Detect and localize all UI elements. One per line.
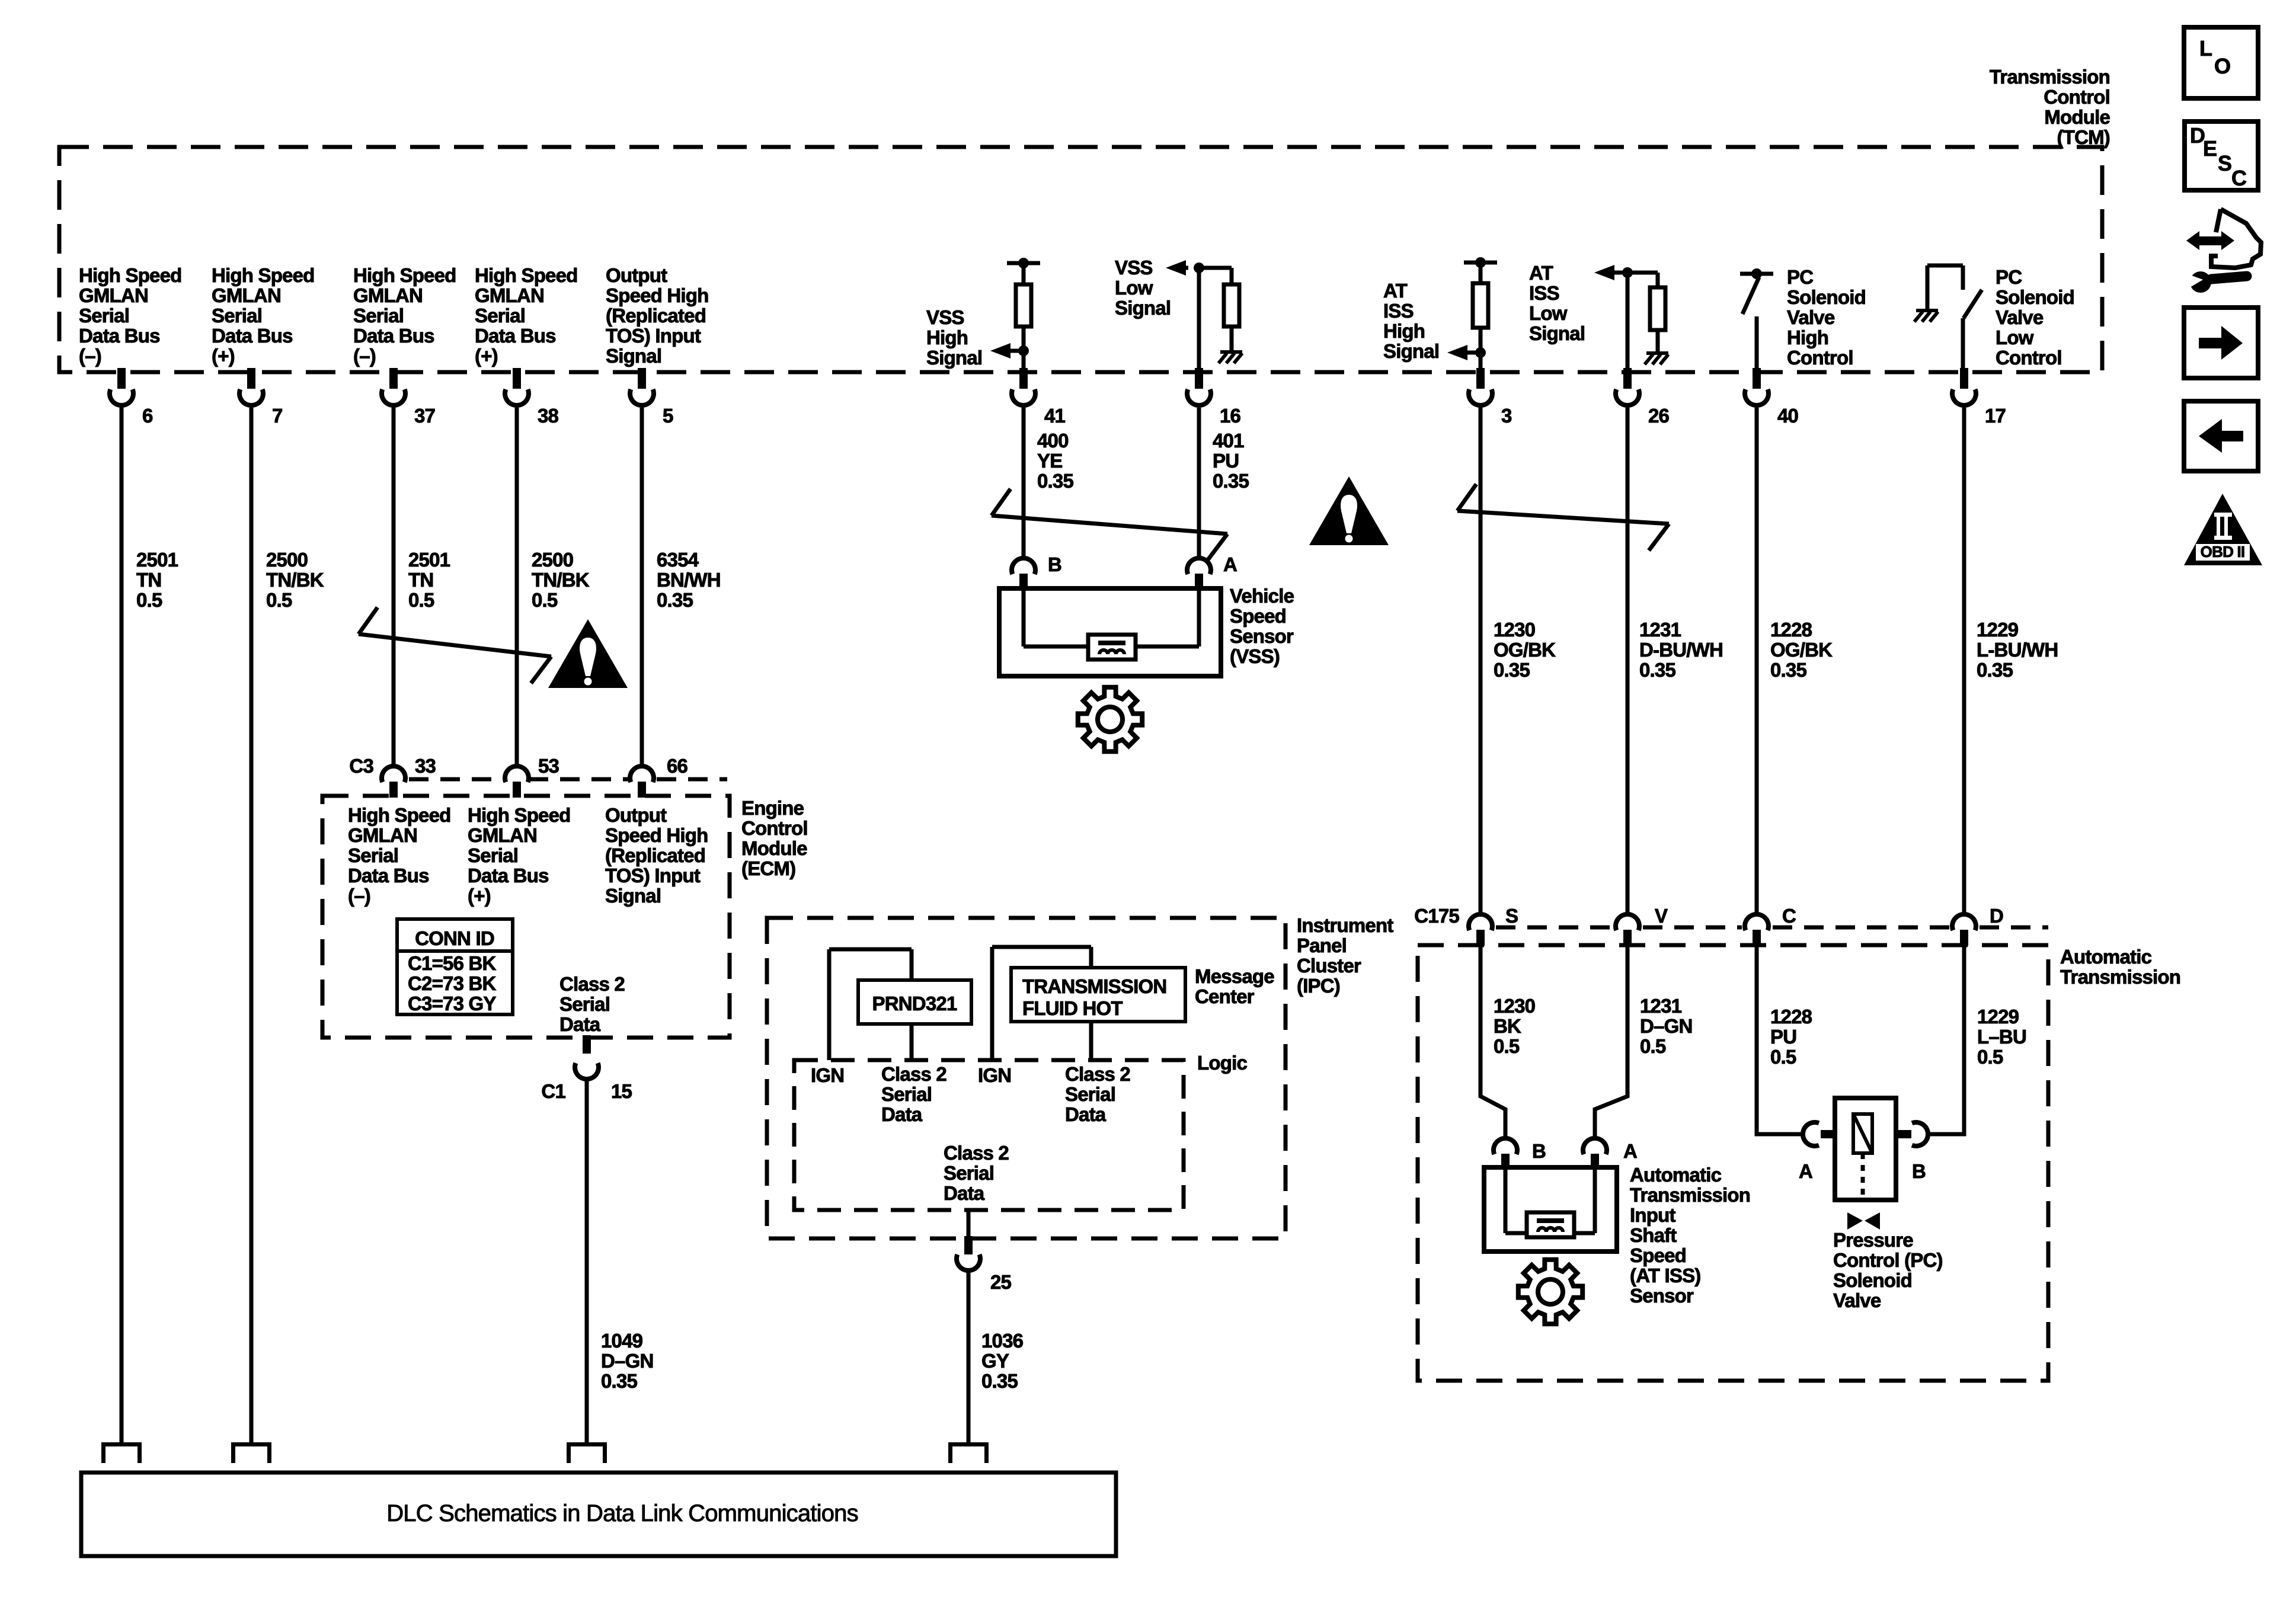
svg-text:PU: PU bbox=[1770, 1026, 1796, 1048]
svg-text:YE: YE bbox=[1037, 450, 1062, 472]
terminal 1049 at DLC bbox=[567, 1442, 607, 1463]
svg-text:Control: Control bbox=[741, 817, 808, 839]
terminal pin6 at DLC bbox=[101, 1442, 142, 1463]
connector pin 33 of ECM bbox=[382, 755, 436, 798]
svg-text:GMLAN: GMLAN bbox=[348, 824, 417, 846]
svg-text:0.5: 0.5 bbox=[408, 589, 434, 611]
svg-text:C: C bbox=[2231, 166, 2247, 190]
svg-text:E: E bbox=[2203, 136, 2217, 161]
connector pin 53 of ECM bbox=[505, 755, 559, 798]
svg-text:TN/BK: TN/BK bbox=[532, 569, 590, 591]
svg-text:(+): (+) bbox=[212, 345, 235, 367]
svg-text:D–GN: D–GN bbox=[601, 1350, 654, 1372]
svg-text:Output: Output bbox=[605, 804, 667, 826]
svg-text:IGN: IGN bbox=[978, 1064, 1011, 1086]
connector pin 5 of TCM bbox=[630, 368, 673, 427]
gear icon ATISS bbox=[1518, 1260, 1582, 1324]
svg-text:(Replicated: (Replicated bbox=[606, 305, 706, 327]
connector pin V of C175 bbox=[1616, 905, 1668, 946]
svg-text:0.5: 0.5 bbox=[1494, 1035, 1520, 1057]
svg-text:Panel: Panel bbox=[1297, 934, 1347, 956]
svg-text:Low: Low bbox=[1115, 277, 1153, 299]
svg-text:Control: Control bbox=[1787, 347, 1853, 369]
svg-text:D-BU/WH: D-BU/WH bbox=[1639, 639, 1723, 661]
svg-text:7: 7 bbox=[272, 405, 283, 427]
svg-text:Speed: Speed bbox=[1230, 605, 1286, 627]
label wire 401 PU bbox=[1213, 430, 1249, 492]
svg-text:PU: PU bbox=[1213, 450, 1239, 472]
wire 1231 D-BU/WH (pin26) bbox=[1626, 408, 1630, 916]
svg-text:Transmission: Transmission bbox=[2060, 966, 2180, 988]
svg-text:(+): (+) bbox=[468, 885, 491, 907]
wire PRND321 feed bbox=[829, 949, 912, 1060]
svg-text:Data Bus: Data Bus bbox=[79, 325, 160, 347]
wire 2501 TN (pin6) bbox=[120, 408, 124, 1442]
label wire 1036 GY bbox=[981, 1330, 1024, 1392]
label wire 1231 D-BU/WH bbox=[1639, 619, 1723, 681]
svg-text:Signal: Signal bbox=[926, 347, 982, 369]
label C3 bbox=[349, 755, 373, 777]
connector line C175 bbox=[1496, 926, 2048, 930]
svg-text:Shaft: Shaft bbox=[1630, 1224, 1677, 1246]
svg-text:Transmission: Transmission bbox=[1630, 1184, 1750, 1206]
connector pin 66 of ECM bbox=[630, 755, 688, 798]
svg-text:Transmission: Transmission bbox=[1990, 66, 2110, 88]
svg-text:(AT ISS): (AT ISS) bbox=[1630, 1265, 1700, 1286]
label wire 2501 TN a bbox=[136, 549, 178, 611]
svg-text:Vehicle: Vehicle bbox=[1230, 585, 1294, 607]
svg-text:GMLAN: GMLAN bbox=[212, 284, 281, 306]
svg-text:Serial: Serial bbox=[1065, 1083, 1115, 1105]
svg-text:GMLAN: GMLAN bbox=[353, 284, 423, 306]
svg-text:C2=73 BK: C2=73 BK bbox=[408, 972, 497, 994]
svg-text:L-BU/WH: L-BU/WH bbox=[1977, 639, 2058, 661]
svg-text:A: A bbox=[1623, 1140, 1637, 1162]
label Pressure Control Solenoid Valve bbox=[1833, 1229, 1943, 1311]
connector pin 41 of TCM bbox=[1012, 368, 1066, 427]
svg-text:TN/BK: TN/BK bbox=[266, 569, 324, 591]
svg-text:1036: 1036 bbox=[981, 1330, 1024, 1352]
wire 400 YE (pin41) bbox=[1022, 408, 1026, 557]
arrow AT ISS high signal bbox=[1447, 345, 1480, 360]
wire 2500 TN/BK (pin7) bbox=[250, 408, 254, 1442]
svg-text:Sensor: Sensor bbox=[1630, 1285, 1694, 1307]
component PC solenoid box bbox=[1835, 1098, 1896, 1200]
svg-text:Serial: Serial bbox=[475, 305, 525, 327]
icon OBD II triangle bbox=[2184, 494, 2262, 565]
arrow VSS high signal bbox=[990, 343, 1024, 359]
svg-text:15: 15 bbox=[611, 1080, 632, 1102]
module Automatic Transmission dashed box bbox=[1418, 945, 2048, 1381]
svg-text:Sensor: Sensor bbox=[1230, 625, 1294, 647]
svg-text:53: 53 bbox=[538, 755, 559, 777]
ground VSS low bbox=[1219, 352, 1242, 363]
component ATISS box bbox=[1484, 1167, 1617, 1251]
module IPC dashed box bbox=[767, 918, 1285, 1238]
label wire 1228 OG/BK bbox=[1770, 619, 1833, 681]
svg-text:37: 37 bbox=[414, 405, 435, 427]
wire 1228 OG/BK (pin40) bbox=[1755, 408, 1759, 916]
wire break symbol AT ISS bbox=[1457, 484, 1669, 550]
svg-text:ISS: ISS bbox=[1383, 300, 1414, 322]
svg-text:CONN ID: CONN ID bbox=[415, 927, 494, 949]
warning triangle 2 bbox=[1309, 476, 1389, 545]
svg-text:Center: Center bbox=[1195, 985, 1255, 1007]
svg-text:2501: 2501 bbox=[136, 549, 178, 571]
svg-text:Data Bus: Data Bus bbox=[348, 865, 429, 886]
component VSS box bbox=[999, 588, 1221, 676]
svg-text:O: O bbox=[2214, 54, 2230, 78]
wire 2500 TN/BK (pin38) bbox=[515, 408, 519, 766]
svg-text:Valve: Valve bbox=[1996, 306, 2044, 328]
svg-text:(VSS): (VSS) bbox=[1230, 645, 1280, 667]
connector pin 3 of TCM bbox=[1469, 368, 1512, 427]
CONN ID table bbox=[397, 919, 513, 1014]
icon DESC box bbox=[2185, 121, 2258, 190]
svg-text:C3: C3 bbox=[349, 755, 373, 777]
connector pin A of PC solenoid bbox=[1799, 1122, 1836, 1182]
svg-text:(+): (+) bbox=[475, 345, 498, 367]
svg-text:Serial: Serial bbox=[348, 844, 398, 866]
svg-text:BN/WH: BN/WH bbox=[657, 569, 721, 591]
svg-text:Signal: Signal bbox=[1115, 297, 1171, 319]
ground PC solenoid low bbox=[1914, 311, 1938, 322]
svg-text:B: B bbox=[1048, 553, 1061, 575]
connector pin A of VSS bbox=[1187, 553, 1237, 590]
svg-text:0.5: 0.5 bbox=[1640, 1035, 1666, 1057]
label ECM name bbox=[741, 797, 808, 879]
label Class 2 Serial Data center bbox=[944, 1142, 1009, 1204]
svg-text:AT: AT bbox=[1383, 280, 1408, 302]
connector pin 17 of TCM bbox=[1952, 368, 2006, 427]
switch PC solenoid high driver bbox=[1740, 268, 1773, 370]
terminal pin7 at DLC bbox=[231, 1442, 271, 1463]
connector pin C of C175 bbox=[1745, 905, 1796, 946]
wire 1229 L-BU/WH (pin17) bbox=[1962, 408, 1966, 916]
svg-text:GMLAN: GMLAN bbox=[79, 284, 148, 306]
svg-text:D: D bbox=[1990, 905, 2003, 927]
svg-text:Serial: Serial bbox=[881, 1083, 932, 1105]
svg-text:1229: 1229 bbox=[1977, 619, 2019, 641]
label Class 2 Serial Data 2 bbox=[1065, 1063, 1130, 1125]
label wire 6354 BN/WH bbox=[657, 549, 721, 611]
svg-text:400: 400 bbox=[1037, 430, 1069, 452]
svg-text:Class 2: Class 2 bbox=[559, 973, 625, 995]
label ECM col3 bbox=[605, 804, 708, 907]
module ECM dashed box bbox=[322, 796, 730, 1038]
svg-text:5: 5 bbox=[663, 405, 673, 427]
svg-text:(–): (–) bbox=[79, 345, 101, 367]
wire 401 PU (pin16) bbox=[1197, 408, 1201, 557]
svg-text:Speed: Speed bbox=[1630, 1244, 1686, 1266]
svg-text:Class 2: Class 2 bbox=[881, 1063, 946, 1085]
connector pin D of C175 bbox=[1952, 905, 2003, 946]
svg-text:2501: 2501 bbox=[408, 549, 450, 571]
svg-text:A: A bbox=[1799, 1160, 1812, 1182]
svg-text:Solenoid: Solenoid bbox=[1787, 286, 1866, 308]
svg-text:17: 17 bbox=[1985, 405, 2006, 427]
svg-text:High Speed: High Speed bbox=[353, 264, 456, 286]
wire 1230 BK bbox=[1480, 944, 1505, 1136]
label TCM name bbox=[1990, 66, 2110, 148]
svg-text:Low: Low bbox=[1529, 302, 1568, 324]
svg-text:Input: Input bbox=[1630, 1204, 1675, 1226]
svg-text:0.35: 0.35 bbox=[1770, 659, 1806, 681]
svg-text:1228: 1228 bbox=[1770, 619, 1812, 641]
svg-text:GMLAN: GMLAN bbox=[468, 824, 537, 846]
svg-text:PC: PC bbox=[1787, 266, 1813, 288]
svg-text:High Speed: High Speed bbox=[468, 804, 571, 826]
svg-text:Serial: Serial bbox=[468, 844, 518, 866]
connector pin B of VSS bbox=[1012, 553, 1061, 590]
label wire 1231 D-GN bbox=[1640, 995, 1693, 1057]
TCM internal AT ISS high pull-up bbox=[1464, 257, 1497, 370]
svg-text:High: High bbox=[1787, 327, 1828, 348]
svg-text:Serial: Serial bbox=[212, 305, 262, 327]
svg-text:FLUID HOT: FLUID HOT bbox=[1022, 997, 1123, 1019]
connector pin 37 of TCM bbox=[382, 368, 435, 427]
switch PC solenoid low driver bbox=[1927, 265, 1982, 370]
svg-text:Control (PC): Control (PC) bbox=[1833, 1249, 1943, 1271]
svg-text:ISS: ISS bbox=[1529, 282, 1559, 304]
label IGN 1 bbox=[811, 1064, 844, 1086]
label pin6 function bbox=[79, 264, 182, 367]
label ATISS sensor bbox=[1630, 1164, 1750, 1307]
icon right arrow box bbox=[2184, 308, 2258, 378]
svg-text:D–GN: D–GN bbox=[1640, 1015, 1693, 1037]
label PC Solenoid Valve Low Control bbox=[1996, 266, 2074, 369]
wire 1228 PU bbox=[1757, 944, 1801, 1134]
svg-text:0.35: 0.35 bbox=[601, 1370, 637, 1392]
wire 1230 OG/BK (pin3) bbox=[1479, 408, 1483, 916]
svg-text:TN: TN bbox=[408, 569, 433, 591]
label wire 1049 D-GN bbox=[601, 1330, 654, 1392]
svg-text:0.5: 0.5 bbox=[266, 589, 292, 611]
svg-text:TRANSMISSION: TRANSMISSION bbox=[1022, 975, 1166, 997]
logic dashed box bbox=[794, 1060, 1184, 1210]
svg-text:Class 2: Class 2 bbox=[1065, 1063, 1130, 1085]
svg-text:Speed High: Speed High bbox=[606, 284, 709, 306]
svg-text:0.35: 0.35 bbox=[1213, 470, 1249, 492]
svg-text:(–): (–) bbox=[353, 345, 376, 367]
svg-text:High Speed: High Speed bbox=[475, 264, 578, 286]
indicator TRANSMISSION FLUID HOT box bbox=[1011, 968, 1185, 1022]
icon scan tool bbox=[2186, 209, 2261, 293]
svg-text:Serial: Serial bbox=[353, 305, 404, 327]
svg-text:TOS) Input: TOS) Input bbox=[606, 325, 701, 347]
wire break symbol VSS bbox=[992, 489, 1227, 561]
label AT ISS High Signal bbox=[1383, 280, 1439, 362]
indicator PRND321 box bbox=[858, 980, 971, 1024]
label wire 1230 OG/BK bbox=[1494, 619, 1556, 681]
svg-text:High Speed: High Speed bbox=[79, 264, 182, 286]
svg-text:(Replicated: (Replicated bbox=[605, 844, 705, 866]
label Class 2 Serial Data ECM bbox=[559, 973, 625, 1035]
label pin7 function bbox=[212, 264, 315, 367]
wire break symbol GMLAN bbox=[359, 607, 551, 683]
svg-text:0.35: 0.35 bbox=[981, 1370, 1018, 1392]
svg-text:(–): (–) bbox=[348, 885, 370, 907]
svg-text:1230: 1230 bbox=[1494, 619, 1535, 641]
svg-text:1228: 1228 bbox=[1770, 1006, 1812, 1028]
svg-text:AT: AT bbox=[1529, 262, 1553, 284]
svg-text:Data: Data bbox=[1065, 1103, 1107, 1125]
svg-text:Signal: Signal bbox=[605, 885, 661, 907]
svg-text:Valve: Valve bbox=[1833, 1289, 1881, 1311]
VSS pickup coil bbox=[1088, 635, 1136, 660]
svg-text:GY: GY bbox=[981, 1350, 1009, 1372]
svg-text:Solenoid: Solenoid bbox=[1833, 1269, 1912, 1291]
svg-text:16: 16 bbox=[1220, 405, 1241, 427]
svg-text:2500: 2500 bbox=[266, 549, 308, 571]
label wire 2500 TN/BK b bbox=[532, 549, 590, 611]
svg-text:Module: Module bbox=[2044, 106, 2110, 128]
svg-text:0.35: 0.35 bbox=[1494, 659, 1530, 681]
svg-text:Solenoid: Solenoid bbox=[1996, 286, 2074, 308]
connector pin 7 of TCM bbox=[239, 368, 283, 427]
svg-text:Data Bus: Data Bus bbox=[353, 325, 434, 347]
label Automatic Transmission bbox=[2060, 946, 2180, 988]
svg-text:6354: 6354 bbox=[657, 549, 699, 571]
svg-text:Signal: Signal bbox=[1383, 340, 1439, 362]
svg-text:Output: Output bbox=[606, 264, 667, 286]
connector pin 6 of TCM bbox=[110, 368, 153, 427]
svg-text:(TCM): (TCM) bbox=[2057, 126, 2110, 148]
TCM internal VSS low bbox=[1194, 263, 1239, 370]
wire 1231 D-GN bbox=[1595, 944, 1627, 1136]
svg-text:Data Bus: Data Bus bbox=[212, 325, 293, 347]
svg-text:High: High bbox=[926, 327, 968, 348]
connector pin 26 of TCM bbox=[1616, 368, 1670, 427]
label VSS Low Signal bbox=[1115, 257, 1171, 319]
svg-text:1229: 1229 bbox=[1977, 1006, 2019, 1028]
ATISS internal wiring bbox=[1505, 1169, 1595, 1233]
svg-text:Engine: Engine bbox=[741, 797, 804, 819]
connector pin 15 of ECM bbox=[541, 1035, 632, 1102]
label pin38 function bbox=[475, 264, 578, 367]
svg-text:B: B bbox=[1532, 1140, 1546, 1162]
svg-text:0.5: 0.5 bbox=[532, 589, 558, 611]
svg-text:6: 6 bbox=[142, 405, 153, 427]
svg-text:PRND321: PRND321 bbox=[872, 993, 957, 1014]
svg-text:Message: Message bbox=[1195, 965, 1274, 987]
svg-text:Signal: Signal bbox=[606, 345, 661, 367]
svg-text:0.5: 0.5 bbox=[1770, 1046, 1796, 1068]
label AT ISS Low Signal bbox=[1529, 262, 1585, 344]
svg-text:1230: 1230 bbox=[1494, 995, 1535, 1017]
connector pin 38 of TCM bbox=[505, 368, 559, 427]
svg-text:C1: C1 bbox=[541, 1080, 565, 1102]
svg-text:B: B bbox=[1912, 1160, 1926, 1182]
wire 6354 BN/WH (pin5) bbox=[640, 408, 644, 766]
svg-text:Serial: Serial bbox=[559, 993, 610, 1015]
label ECM col2 bbox=[468, 804, 571, 907]
svg-text:IGN: IGN bbox=[811, 1064, 844, 1086]
label VSS High Signal bbox=[926, 306, 982, 369]
svg-text:OBD II: OBD II bbox=[2201, 543, 2245, 561]
svg-text:VSS: VSS bbox=[1115, 257, 1153, 279]
svg-text:Pressure: Pressure bbox=[1833, 1229, 1913, 1251]
label C175 bbox=[1414, 905, 1459, 927]
label PC Solenoid Valve High Control bbox=[1787, 266, 1866, 369]
label IPC name bbox=[1297, 914, 1393, 997]
icon Lo box bbox=[2184, 27, 2258, 98]
svg-text:40: 40 bbox=[1777, 405, 1798, 427]
svg-text:C: C bbox=[1782, 905, 1796, 927]
svg-text:Data Bus: Data Bus bbox=[468, 865, 549, 886]
svg-text:Cluster: Cluster bbox=[1297, 955, 1361, 977]
wire 1229 L-BU bbox=[1930, 944, 1964, 1134]
svg-text:26: 26 bbox=[1648, 405, 1670, 427]
svg-text:0.35: 0.35 bbox=[657, 589, 693, 611]
connector pin A of ATISS bbox=[1583, 1138, 1637, 1170]
svg-text:Data: Data bbox=[944, 1182, 985, 1204]
connector pin 25 of IPC bbox=[957, 1236, 1012, 1293]
terminal 1036 at DLC bbox=[948, 1442, 989, 1463]
TCM internal AT ISS low bbox=[1614, 267, 1665, 370]
label pin5 function bbox=[606, 264, 709, 367]
svg-text:Automatic: Automatic bbox=[2060, 946, 2152, 968]
label Class 2 Serial Data 1 bbox=[881, 1063, 946, 1125]
svg-text:Data: Data bbox=[881, 1103, 923, 1125]
svg-text:0.35: 0.35 bbox=[1977, 659, 2013, 681]
connector pin B of PC solenoid bbox=[1896, 1122, 1928, 1182]
svg-text:Valve: Valve bbox=[1787, 306, 1835, 328]
svg-text:Control: Control bbox=[2044, 86, 2110, 108]
svg-text:C1=56 BK: C1=56 BK bbox=[408, 952, 497, 974]
label Message Center bbox=[1195, 965, 1274, 1007]
svg-text:1231: 1231 bbox=[1640, 995, 1682, 1017]
svg-text:1231: 1231 bbox=[1639, 619, 1681, 641]
svg-text:38: 38 bbox=[538, 405, 559, 427]
ATISS pickup coil bbox=[1527, 1212, 1574, 1237]
svg-text:BK: BK bbox=[1494, 1015, 1521, 1037]
label pin37 function bbox=[353, 264, 456, 367]
DLC box bbox=[81, 1473, 1116, 1556]
svg-text:TOS) Input: TOS) Input bbox=[605, 865, 701, 886]
svg-text:0.35: 0.35 bbox=[1037, 470, 1073, 492]
svg-text:1049: 1049 bbox=[601, 1330, 643, 1352]
label ECM col1 bbox=[348, 804, 451, 907]
svg-text:Automatic: Automatic bbox=[1630, 1164, 1722, 1186]
PC solenoid valve element bbox=[1853, 1114, 1872, 1200]
svg-text:L–BU: L–BU bbox=[1977, 1026, 2026, 1048]
connector pin 16 of TCM bbox=[1187, 368, 1241, 427]
svg-text:0.5: 0.5 bbox=[136, 589, 162, 611]
svg-text:C175: C175 bbox=[1414, 905, 1459, 927]
svg-text:L: L bbox=[2199, 36, 2212, 60]
svg-text:Serial: Serial bbox=[944, 1162, 994, 1184]
svg-text:66: 66 bbox=[667, 755, 688, 777]
svg-text:Instrument: Instrument bbox=[1297, 914, 1393, 936]
svg-text:OG/BK: OG/BK bbox=[1494, 639, 1556, 661]
label Logic bbox=[1197, 1052, 1247, 1074]
svg-text:(ECM): (ECM) bbox=[741, 857, 795, 879]
wire 1049 D-GN bbox=[585, 1080, 589, 1442]
svg-text:High: High bbox=[1383, 320, 1425, 342]
ground AT ISS low bbox=[1645, 353, 1668, 364]
svg-text:Low: Low bbox=[1996, 327, 2034, 348]
label wire 1230 BK bbox=[1494, 995, 1535, 1057]
arrow VSS low signal bbox=[1166, 260, 1188, 276]
svg-text:Speed High: Speed High bbox=[605, 824, 708, 846]
svg-text:GMLAN: GMLAN bbox=[475, 284, 544, 306]
wire TFH feed bbox=[992, 947, 1091, 1060]
svg-text:S: S bbox=[2218, 151, 2231, 175]
label IGN 2 bbox=[978, 1064, 1011, 1086]
svg-text:25: 25 bbox=[990, 1271, 1012, 1293]
svg-text:Control: Control bbox=[1996, 347, 2062, 369]
